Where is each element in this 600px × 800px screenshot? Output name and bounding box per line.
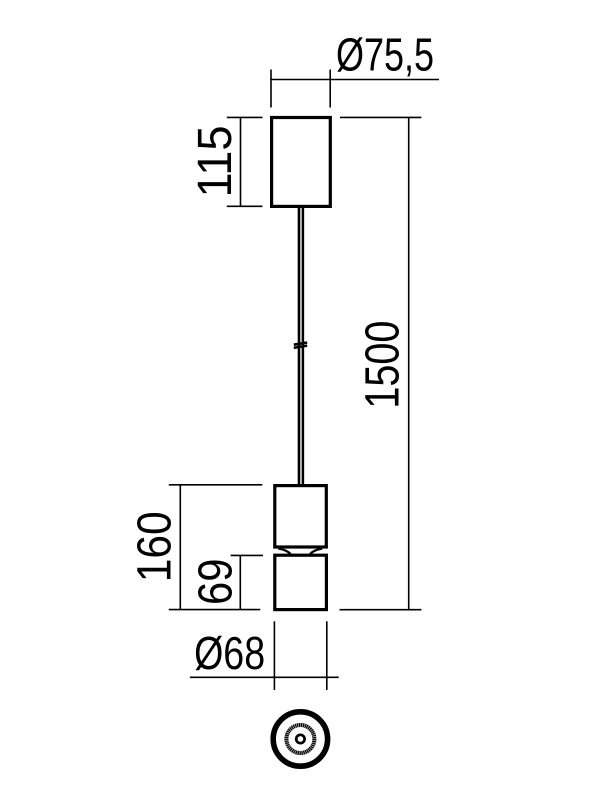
svg-text:Ø75,5: Ø75,5	[336, 28, 434, 80]
svg-text:Ø68: Ø68	[194, 627, 265, 679]
svg-text:69: 69	[190, 559, 243, 606]
svg-text:160: 160	[129, 511, 182, 582]
svg-text:115: 115	[189, 126, 242, 198]
svg-text:1500: 1500	[356, 321, 409, 409]
